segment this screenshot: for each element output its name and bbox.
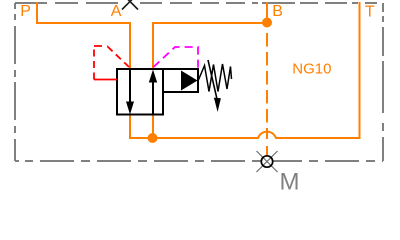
wire B: port B stub: [266, 2, 268, 23]
adjustment arrow through spring: [208, 60, 221, 112]
wire valve bottom left to junction: [130, 115, 153, 139]
svg-text:M: M: [280, 169, 300, 196]
wire B to valve right path: [153, 23, 267, 69]
valve V1 pilot box: [163, 69, 198, 92]
spring: [198, 64, 232, 92]
wire P: port P down and right into valve left path: [37, 2, 130, 69]
pilot line magenta (B side): [154, 47, 199, 68]
plate outline right border: [382, 3, 384, 161]
svg-text:NG10: NG10: [292, 60, 331, 77]
wire B gauge line dashed lower: [266, 146, 268, 155]
svg-text:T: T: [365, 3, 375, 20]
svg-text:B: B: [272, 3, 283, 20]
wire valve bottom right stub: [152, 115, 154, 139]
valve left flow path arrow (down): [126, 69, 134, 115]
valve V1 main body: [117, 69, 163, 115]
plate outline bottom border: [15, 160, 383, 162]
junction node at valve outlet: [148, 133, 158, 143]
wire B gauge line dashed upper: [266, 33, 268, 139]
plate outline top border: [15, 2, 383, 4]
pilot line red (P side): [94, 79, 117, 81]
valve right flow path arrow (up): [149, 70, 157, 115]
valve pilot triangle: [181, 71, 198, 91]
gauge port M symbol: [257, 151, 278, 172]
svg-text:P: P: [20, 3, 31, 20]
port A plug X: [122, 0, 138, 10]
svg-text:A: A: [111, 3, 122, 20]
junction node at B: [262, 18, 272, 28]
wire T: port T down, left with hop, to junction: [153, 2, 360, 138]
plate outline left border: [14, 3, 16, 161]
